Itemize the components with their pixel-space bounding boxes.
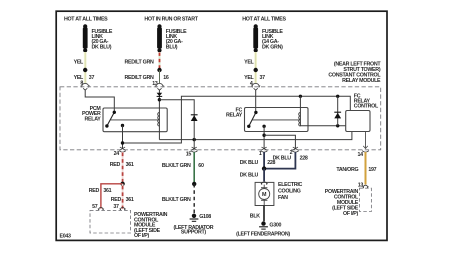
label POWERTRAIN CONTROL MODULE (LEFT SIDE OF I/P) (right)	[325, 189, 359, 217]
svg-text:HOT IN RUN OR START: HOT IN RUN OR START	[144, 17, 198, 23]
svg-text:BLK/LT GRN: BLK/LT GRN	[162, 197, 191, 203]
pin 4 (CCRM top)	[250, 81, 260, 90]
node: junction below diode D1	[158, 98, 161, 101]
wire TAN/ORG 197 (pin 14 down)	[365, 152, 367, 185]
svg-text:14: 14	[358, 152, 364, 158]
svg-text:G300: G300	[269, 222, 281, 228]
node: tap on pin 24 wire	[121, 141, 124, 144]
svg-text:RED: RED	[110, 162, 121, 168]
svg-text:361: 361	[126, 162, 134, 168]
svg-text:DK BLU: DK BLU	[240, 172, 259, 178]
PCM relay switch arm	[105, 111, 116, 128]
wire BLK/LT GRN 60 (pin 15 down, green)	[193, 152, 195, 184]
svg-text:ELECTRIC: ELECTRIC	[278, 182, 303, 188]
fusible link F3 (14 GA DK GRN)	[253, 24, 283, 52]
svg-text:16: 16	[163, 75, 169, 81]
svg-text:G108: G108	[199, 214, 211, 220]
label PCM POWER RELAY	[82, 106, 101, 123]
svg-text:37: 37	[89, 75, 95, 81]
diode D1 (series, below pin 13)	[157, 93, 163, 97]
svg-text:RELAY: RELAY	[226, 113, 243, 119]
PCM relay coil	[158, 113, 160, 127]
svg-text:(LEFT FENDERAPRON): (LEFT FENDERAPRON)	[236, 232, 290, 238]
PCM module box (dashed, bottom left)	[90, 210, 131, 233]
pin 15 (CCRM bottom)	[186, 147, 198, 158]
svg-text:361: 361	[126, 197, 134, 203]
svg-text:DK BLU): DK BLU)	[92, 44, 112, 50]
wire: pin 8 to PCM power relay contact	[85, 90, 114, 113]
wire RED/LT GRN (feed 2 lower)	[159, 70, 161, 83]
pin 2 (CCRM bottom)	[290, 147, 299, 156]
wire RED/LT GRN (feed 2 upper)	[159, 52, 161, 70]
svg-text:BLU): BLU)	[166, 44, 178, 50]
svg-text:SUPPORT): SUPPORT)	[181, 230, 207, 236]
PCM module box (dashed, right)	[359, 188, 371, 211]
wire DK BLU (to fan)	[263, 169, 265, 182]
pin 14 (CCRM bottom)	[358, 151, 369, 158]
wire BLK/LT GRN (to G108, dashed black)	[193, 184, 195, 214]
wire: FC output down to pin 1	[263, 126, 265, 149]
diode D2 (clamp across PCM relay coil)	[191, 115, 198, 121]
wire YEL (feed 1 vertical)	[84, 52, 87, 83]
svg-text:YEL: YEL	[74, 59, 84, 65]
node: ground splice	[192, 182, 196, 186]
CCRM dashed enclosure	[60, 87, 381, 150]
svg-text:RED: RED	[111, 197, 122, 203]
svg-text:37: 37	[260, 75, 266, 81]
outer border frame	[56, 11, 387, 240]
svg-text:DK BLU: DK BLU	[273, 155, 292, 161]
svg-text:DK BLU: DK BLU	[240, 160, 259, 166]
pin 1 (CCRM bottom)	[259, 147, 268, 157]
svg-text:M: M	[262, 192, 267, 198]
wire RED 361 branch to pin 57	[101, 184, 123, 209]
pin 37 (PCM)	[113, 204, 125, 211]
pin 24 (CCRM bottom)	[114, 147, 126, 157]
wire: junction down to pin 15	[193, 140, 195, 149]
node: DK BLU junction	[262, 166, 266, 170]
wire: branch to pin 2	[264, 135, 295, 149]
svg-text:RED: RED	[89, 188, 100, 194]
ground G300	[259, 221, 281, 229]
wire: pin 13 down (with series diode) to PCM relay coil	[158, 90, 160, 140]
svg-text:228: 228	[300, 155, 308, 161]
electric cooling fan M1	[255, 182, 274, 206]
node: output branch tee	[262, 134, 265, 137]
FC relay actuation link	[252, 119, 300, 121]
wire BLK (fan to G300)	[263, 206, 265, 222]
label FC RELAY	[226, 107, 243, 118]
node: FC coil supply tee	[299, 95, 302, 98]
wire DK BLU 228 (pin 2 elbow)	[264, 152, 295, 169]
svg-text:BLK/LT GRN: BLK/LT GRN	[162, 163, 191, 169]
svg-text:HOT AT ALL TIMES: HOT AT ALL TIMES	[64, 17, 108, 23]
splice dot feed 1	[83, 68, 87, 72]
svg-text:60: 60	[198, 163, 204, 169]
node: FC diode supply tee	[336, 95, 339, 98]
FC relay switch arm	[247, 111, 258, 128]
splice dot feed 2	[157, 68, 161, 72]
wire RED 361 (pin 24 down, dashed)	[122, 152, 124, 184]
diode D3 (clamp across FC relay coil)	[334, 96, 341, 126]
svg-text:FAN: FAN	[278, 195, 288, 201]
FC relay coil	[300, 96, 345, 126]
svg-text:RED/LT GRN: RED/LT GRN	[125, 75, 154, 81]
FC relay box U2	[245, 108, 309, 132]
wire: FC relay control output to pin 14 with arrow	[363, 132, 368, 149]
pin 13 (PCM right)	[358, 183, 369, 189]
node: RED splice	[120, 182, 124, 186]
wire RED 361 (continues to pin 37, dashed)	[122, 184, 124, 209]
FC relay control box U3	[346, 111, 370, 132]
svg-text:TAN/ORG: TAN/ORG	[336, 167, 358, 173]
CCRM label (NEAR LEFT FRONT STRUT TOWER) CONSTANT CONTROL RELAY MODULE	[328, 62, 381, 84]
node: coil-bus / pin 15 junction	[193, 138, 196, 141]
pin 13 (CCRM top)	[152, 81, 164, 90]
PCM relay actuation link	[111, 119, 160, 121]
svg-text:13: 13	[358, 183, 364, 189]
wire: diode branch top (from pin13 junction)	[159, 100, 194, 140]
wire: coil bottom bus to FC relay control (bottom)	[159, 132, 352, 140]
label POWERTRAIN CONTROL MODULE (LEFT SIDE OF I/P)	[134, 212, 168, 239]
label ELECTRIC COOLING FAN	[278, 182, 303, 201]
svg-text:DK GRN): DK GRN)	[262, 44, 283, 50]
pin 8	[80, 80, 89, 90]
svg-text:COOLING: COOLING	[278, 189, 301, 195]
svg-text:24: 24	[114, 151, 120, 157]
svg-text:RELAY MODULE: RELAY MODULE	[342, 78, 381, 84]
svg-text:RELAY: RELAY	[85, 116, 102, 122]
fusible link F1 (20 GA DK BLU)	[83, 24, 113, 52]
PCM power relay box U1	[103, 108, 167, 132]
wire YEL (feed 3 vertical)	[254, 52, 257, 83]
svg-text:OF I/P): OF I/P)	[134, 233, 150, 239]
fusible link F2 (20 GA BLU)	[157, 24, 187, 52]
svg-text:197: 197	[368, 167, 376, 173]
svg-text:57: 57	[92, 204, 98, 210]
svg-text:BLK: BLK	[250, 213, 260, 219]
svg-text:OF I/P): OF I/P)	[343, 211, 359, 217]
label FC RELAY CONTROL	[354, 94, 379, 110]
wire DK BLU 228 (pin 1 down)	[263, 152, 265, 169]
ground G108	[190, 214, 212, 222]
svg-text:YEL: YEL	[244, 59, 254, 65]
wire: supply bus from pin24 line up and across to FC relay coil and FC relay control	[123, 96, 351, 143]
wire: pin 4 down to FC relay contact	[255, 90, 257, 113]
FC relay output node	[262, 125, 265, 128]
svg-text:RED/LT GRN: RED/LT GRN	[125, 59, 154, 65]
svg-text:37: 37	[113, 204, 119, 210]
wire: relay output down to pin 24	[122, 126, 124, 150]
node: FC diode bottom tee	[336, 124, 339, 127]
svg-text:CONTROL: CONTROL	[354, 104, 379, 110]
splice dot feed 3	[254, 68, 258, 72]
PCM relay output node	[121, 124, 124, 127]
svg-text:HOT AT ALL TIMES: HOT AT ALL TIMES	[242, 17, 286, 23]
pin 57 (PCM)	[92, 204, 104, 211]
svg-text:E043: E043	[60, 234, 72, 240]
svg-text:15: 15	[186, 152, 192, 158]
svg-text:361: 361	[103, 188, 111, 194]
